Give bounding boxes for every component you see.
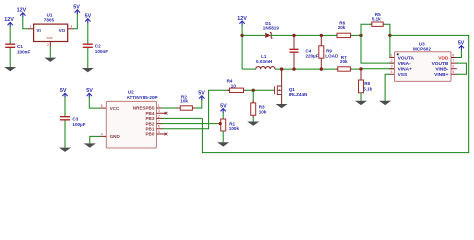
svg-text:5.1k: 5.1k <box>372 16 381 21</box>
ground (C3) <box>59 148 71 152</box>
power flag 5V (U3 VDD) <box>458 41 465 50</box>
power flag 5V (to C3) <box>60 88 68 98</box>
wire junction to R3 <box>252 90 254 103</box>
junction R9 bottom <box>320 67 323 70</box>
svg-text:7: 7 <box>158 120 160 124</box>
power flag 12V (boost input) <box>237 16 247 26</box>
resistor R4 <box>227 78 246 92</box>
svg-text:3: 3 <box>158 109 160 113</box>
wire C2 to ground <box>87 48 89 68</box>
resistor R8 <box>359 80 373 93</box>
wire C1 to ground <box>9 48 11 67</box>
svg-text:VINA+: VINA+ <box>398 67 412 73</box>
capacitor C3 <box>60 116 86 127</box>
svg-text:C3: C3 <box>72 116 78 121</box>
svg-text:1N5819: 1N5819 <box>263 26 280 31</box>
svg-text:U2: U2 <box>128 89 134 94</box>
svg-text:5.1k: 5.1k <box>363 86 372 91</box>
wire junction to R8 <box>360 69 362 80</box>
ground (R3) <box>247 122 259 126</box>
svg-text:78L05: 78L05 <box>46 38 53 40</box>
resistor R7 <box>336 55 352 71</box>
svg-text:LOAD: LOAD <box>325 54 339 59</box>
wire VOUTB to VINB+ <box>456 63 466 74</box>
svg-text:4: 4 <box>391 70 393 74</box>
svg-text:VSS: VSS <box>398 72 408 78</box>
resistor R9 LOAD <box>319 35 339 69</box>
wire VSS to ground <box>385 74 390 101</box>
svg-text:220µF: 220µF <box>305 54 318 59</box>
svg-text:VDD: VDD <box>438 55 449 61</box>
wire L1 to op-amp (rail2) <box>275 68 338 70</box>
U2 pin stubs right side <box>157 108 167 134</box>
wire 5V to C2 <box>87 23 89 44</box>
wire R2 to 5V <box>195 98 202 108</box>
svg-text:8: 8 <box>101 104 103 108</box>
svg-text:3: 3 <box>70 25 72 29</box>
U2 GND pin stub <box>100 135 106 137</box>
wire U1 VO to 5V <box>73 12 77 28</box>
svg-text:VI: VI <box>36 28 40 33</box>
svg-text:10k: 10k <box>180 99 188 104</box>
U1 pin 3 stub <box>68 28 74 30</box>
junction R4/R3 <box>252 89 255 92</box>
svg-text:20k: 20k <box>338 25 346 30</box>
svg-text:C2: C2 <box>95 43 101 48</box>
svg-text:6: 6 <box>452 65 454 69</box>
svg-text:100nF: 100nF <box>95 49 108 54</box>
ground (Q1) <box>276 104 288 108</box>
svg-text:0.03mH: 0.03mH <box>256 59 273 64</box>
svg-text:PB0: PB0 <box>145 132 154 137</box>
svg-text:12V: 12V <box>17 7 27 13</box>
svg-text:7805: 7805 <box>44 18 55 23</box>
resistor R6 <box>336 21 352 38</box>
wire U2 GND to ground <box>90 136 101 143</box>
microcontroller U2 ATTINY85-20P body <box>106 89 157 148</box>
svg-text:100k: 100k <box>229 126 240 131</box>
wire junction down to VOUTA <box>390 35 395 57</box>
svg-text:20k: 20k <box>340 59 348 64</box>
U1 pin 1 stub <box>28 28 33 30</box>
resistor R3 <box>251 101 267 118</box>
inductor L1 <box>256 54 275 69</box>
junction R8 tap <box>359 67 362 70</box>
wire D1 to C4 to R9 to R6 (rail1) <box>271 34 338 36</box>
wire C3 to ground <box>64 120 66 147</box>
wire rail2 from 12V corner through L1 <box>242 68 256 70</box>
svg-text:5: 5 <box>452 70 454 74</box>
no-connect x on PB4 <box>165 112 168 115</box>
svg-text:100µF: 100µF <box>72 122 85 127</box>
svg-text:ATTINY85-20P: ATTINY85-20P <box>127 95 158 100</box>
wire R3 to ground <box>252 117 254 122</box>
svg-text:3: 3 <box>391 65 393 69</box>
svg-text:10: 10 <box>231 83 237 88</box>
wire 5V to C3 <box>64 97 66 116</box>
junction Q1 drain <box>280 67 283 70</box>
svg-text:1: 1 <box>391 53 393 57</box>
wire PB1 to R4 <box>162 90 230 129</box>
wire R1 to ground <box>222 131 224 142</box>
svg-text:VO: VO <box>59 28 66 33</box>
wire PB3 to feedback loop <box>162 117 203 119</box>
no-connect x on PB0 <box>165 133 168 136</box>
svg-text:4: 4 <box>101 132 103 136</box>
junction R5/VOUTA/loop <box>388 34 391 37</box>
capacitor C4 <box>290 35 319 69</box>
U1 pin 2 stub <box>49 42 51 48</box>
wire R6 to junction <box>351 34 361 36</box>
svg-text:8: 8 <box>452 53 454 57</box>
junction 12V/rail1 <box>240 34 243 37</box>
feedback loop wire VOUTA to PB3 <box>202 35 468 152</box>
U3 pin numbers right 8 7 6 5 <box>452 53 454 74</box>
svg-text:2: 2 <box>158 114 160 118</box>
capacitor C2 <box>83 43 108 54</box>
capacitor C1 <box>5 44 30 55</box>
U3 right pin stubs <box>451 58 457 75</box>
diode D1 1N5819 <box>263 21 280 38</box>
power flag 5V (U1 out) <box>73 5 80 15</box>
svg-text:5: 5 <box>158 130 160 134</box>
junction C4 top <box>292 34 295 37</box>
svg-text:C1: C1 <box>17 44 23 49</box>
ground (U3 VSS) <box>379 101 391 105</box>
svg-text:VINB-: VINB- <box>435 67 448 73</box>
svg-text:GND: GND <box>110 134 121 139</box>
U2 VCC pin stub <box>100 107 106 109</box>
wire R8 to ground <box>360 93 362 101</box>
wire Q1 drain to rail <box>281 69 283 86</box>
svg-text:6: 6 <box>158 125 160 129</box>
wire VDD to 5V <box>456 49 461 57</box>
wire NRESPB5 to R2 <box>162 107 179 109</box>
svg-text:VOUTB: VOUTB <box>432 61 449 67</box>
svg-text:10k: 10k <box>259 110 267 115</box>
power flag 12V (to U1 VI) <box>17 7 27 17</box>
U3 pin numbers left 1 2 3 4 <box>391 53 393 74</box>
svg-text:100nF: 100nF <box>17 50 30 55</box>
wire junction up to R5 <box>361 24 372 35</box>
svg-text:VCC: VCC <box>110 106 120 111</box>
wire 5V to U2 VCC <box>89 97 101 108</box>
svg-text:2: 2 <box>47 43 49 47</box>
svg-text:1: 1 <box>158 104 160 108</box>
ground (C2) <box>82 68 94 72</box>
ground (C1) <box>4 67 16 71</box>
potentiometer R1 <box>218 119 240 131</box>
transistor Q1 IRLZ44N <box>275 86 309 98</box>
power flag 5V (R1 top) <box>220 103 227 113</box>
ground (R8) <box>355 101 367 105</box>
svg-text:MCP602: MCP602 <box>413 46 431 51</box>
power flag 5V (R2 pullup) <box>198 91 205 101</box>
ground (R1) <box>217 142 229 146</box>
pin numbers 1 3 2 7 6 5 <box>158 104 160 134</box>
svg-text:VINA-: VINA- <box>398 61 411 67</box>
junction R6/R5/VINA- <box>359 34 362 37</box>
wire VINA- from junction <box>361 35 395 63</box>
resistor R2 <box>177 94 196 110</box>
svg-text:1: 1 <box>30 25 32 29</box>
wire R5 to VOUTA junction <box>384 24 390 35</box>
power flag 5V (to C2) <box>85 13 92 23</box>
junction R9 top <box>320 34 323 37</box>
ground (U1) <box>44 58 56 62</box>
svg-text:7: 7 <box>452 59 454 63</box>
wire 12V down to rails <box>241 25 243 69</box>
op-amp U1 7805 body <box>34 13 68 42</box>
power flag 12V (left, to C1) <box>4 17 14 27</box>
op-amp U3 MCP602 body <box>395 41 452 81</box>
ground (U2) <box>84 143 96 147</box>
svg-text:12V: 12V <box>4 17 14 23</box>
svg-text:VOUTA: VOUTA <box>398 55 415 61</box>
wire 12V to U1 pin 1 <box>23 17 29 29</box>
wire Q1 source to ground <box>281 95 283 104</box>
svg-text:IRLZ44N: IRLZ44N <box>289 92 308 97</box>
svg-text:5V: 5V <box>60 88 67 94</box>
wire rail2 to VINA+ <box>338 68 395 70</box>
wire 5V to R1 <box>222 113 224 119</box>
wire rail1 to D1 <box>242 34 265 36</box>
svg-text:2: 2 <box>391 59 393 63</box>
resistor R5 <box>370 12 384 27</box>
wire R4 to Q1 gate <box>245 89 274 91</box>
wire PB2 to R1 wiper <box>162 123 218 125</box>
svg-text:VINB+: VINB+ <box>434 72 448 78</box>
wire U1 GND to ground <box>49 47 51 58</box>
junction R1 wiper <box>219 122 222 125</box>
junction C4 bottom <box>292 67 295 70</box>
wire 12V to C1 <box>9 27 11 44</box>
power flag 5V (to U2 VCC) <box>86 88 93 98</box>
U3 left pin stubs <box>389 58 395 75</box>
